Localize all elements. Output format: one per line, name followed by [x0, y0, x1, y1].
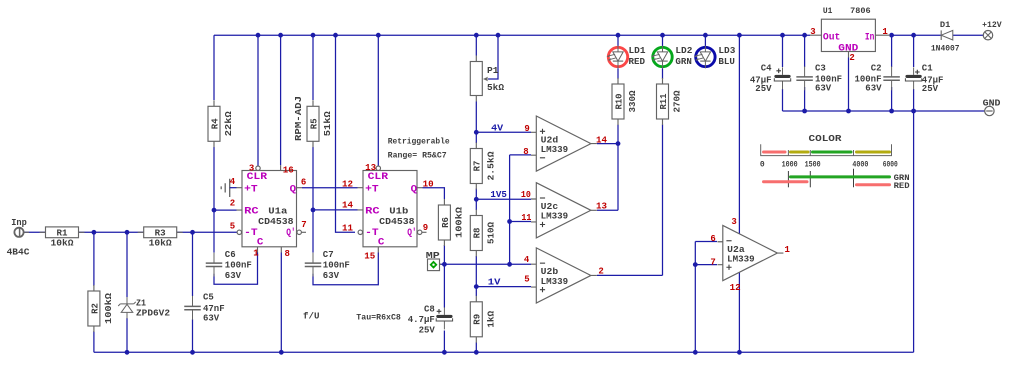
wire +6V top rail — [214, 34, 810, 36]
wire U2d pin 8 — [510, 154, 531, 156]
svg-text:C8: C8 — [424, 305, 435, 315]
svg-text:Tau=R6xC8: Tau=R6xC8 — [356, 314, 401, 323]
svg-text:10kΩ: 10kΩ — [149, 239, 173, 249]
junction 1V node — [474, 284, 479, 289]
junction 4V node — [474, 130, 479, 135]
svg-text:11: 11 — [342, 223, 354, 233]
wire C1 bottom — [913, 89, 915, 111]
svg-text:CD4538: CD4538 — [379, 217, 414, 227]
wire LD1 anode — [617, 35, 619, 46]
svg-text:U2d: U2d — [541, 135, 559, 145]
svg-text:1: 1 — [785, 245, 791, 255]
svg-text:LM339: LM339 — [541, 145, 569, 155]
capacitor C3 — [795, 64, 842, 94]
pin numbers U1a — [230, 163, 307, 259]
wire C4 top — [782, 35, 784, 67]
svg-text:8: 8 — [523, 147, 528, 157]
svg-text:100nF: 100nF — [225, 261, 252, 271]
svg-text:5: 5 — [230, 221, 235, 231]
svg-text:3: 3 — [249, 163, 254, 173]
pin names U1a — [244, 172, 296, 249]
svg-text:Retriggerable: Retriggerable — [388, 138, 450, 147]
LED LD1 — [607, 46, 647, 69]
wire R4 top drop — [213, 35, 215, 100]
svg-text:4.7µF: 4.7µF — [408, 315, 435, 325]
legend bar green 1500-4000 — [813, 151, 852, 154]
svg-text:R8: R8 — [473, 228, 483, 239]
svg-text:U2a: U2a — [727, 245, 745, 255]
wire C3 top — [804, 35, 806, 67]
junction ground rail / U2a inputs — [693, 350, 698, 355]
svg-text:1500: 1500 — [805, 161, 821, 170]
junction mini rail / C3 — [802, 109, 807, 114]
svg-text:GND: GND — [838, 43, 858, 54]
wire R5 bottom to C7 / RC node — [312, 147, 314, 253]
capacitor C8 — [408, 305, 454, 336]
junction mini rail / C1 and riser — [911, 109, 916, 114]
wire R2 bottom to ground rail — [93, 331, 95, 352]
wire C3 bottom — [804, 87, 806, 111]
wire R2 top drop — [93, 232, 95, 286]
svg-text:1V5: 1V5 — [490, 190, 507, 200]
svg-text:6: 6 — [301, 178, 306, 188]
svg-text:C4: C4 — [761, 64, 772, 74]
junction U2a pins 6-7 — [693, 262, 698, 267]
svg-text:RED: RED — [629, 57, 646, 67]
svg-text:3: 3 — [731, 217, 736, 227]
junction ground rail / U1a pin 8 — [279, 350, 284, 355]
legend bar red 0-1000 — [764, 151, 786, 154]
svg-text:RC: RC — [365, 206, 380, 217]
svg-text:-T: -T — [244, 228, 258, 239]
wire +12V input line — [890, 34, 983, 36]
wire comparator inverting input chain pins 8-11-4 — [509, 155, 511, 264]
svg-text:In: In — [865, 32, 875, 43]
wire R9 bottom to ground rail — [475, 343, 477, 353]
svg-text:13: 13 — [596, 201, 607, 211]
svg-text:1: 1 — [882, 27, 888, 37]
monostable U1a CD4538 — [237, 165, 307, 252]
junction top rail / U2a pin 3 — [737, 33, 742, 38]
wire MP node to U2b pin 4 — [440, 263, 531, 265]
svg-text:8: 8 — [285, 249, 290, 259]
capacitor C4 — [750, 64, 792, 94]
wire U2d output 14 to R10 line — [597, 143, 618, 145]
node 1V wire to U2b pin 5 — [476, 286, 531, 288]
junction input net / Z1 — [125, 230, 130, 235]
svg-text:510Ω: 510Ω — [486, 221, 496, 244]
svg-text:P1: P1 — [487, 66, 499, 76]
wire RC node to U1b pin 14 — [313, 209, 358, 211]
svg-text:2.5kΩ: 2.5kΩ — [486, 151, 496, 181]
svg-text:330Ω: 330Ω — [628, 90, 638, 113]
svg-text:R4: R4 — [210, 118, 220, 129]
label U1a CD4538 — [258, 207, 293, 227]
pin numbers U2d — [523, 124, 607, 157]
resistor R3 — [138, 227, 183, 249]
capacitor C5 — [183, 293, 224, 324]
resistor R11 — [657, 78, 683, 125]
legend ruler bracket — [761, 144, 892, 155]
junction top rail / LD2 — [660, 33, 665, 38]
svg-text:2: 2 — [849, 53, 854, 63]
junction 1V5 node — [474, 197, 479, 202]
resistor R7 — [470, 143, 496, 190]
legend bar yellow 4000-6000 — [857, 151, 890, 154]
wire C2 bottom — [891, 87, 893, 111]
svg-text:LM339: LM339 — [541, 277, 569, 287]
LED LD3 — [694, 46, 735, 69]
svg-text:C6: C6 — [225, 250, 236, 260]
svg-text:LD2: LD2 — [675, 46, 692, 56]
wire U2a power pin 12 to ground rail — [738, 273, 740, 353]
wire LD3 anode — [704, 35, 706, 46]
svg-text:U1: U1 — [823, 6, 833, 16]
pin numbers U1b — [342, 163, 434, 261]
svg-text:7: 7 — [301, 220, 306, 230]
junction RC node U1a — [212, 208, 217, 213]
wire C2 top — [891, 35, 893, 67]
LED LD2 — [651, 46, 692, 69]
svg-text:1: 1 — [253, 249, 259, 259]
op-amp U2c — [531, 183, 597, 238]
junction top rail / R5 — [311, 33, 316, 38]
junction top rail / U1a pin 16 — [278, 33, 283, 38]
wire U1b Q pin 10 to R6 — [423, 188, 445, 199]
svg-text:100kΩ: 100kΩ — [454, 206, 464, 238]
resistor R10 — [612, 78, 638, 125]
svg-text:Range= R5&C7: Range= R5&C7 — [388, 151, 447, 160]
diode D1 1N4007 — [931, 20, 960, 53]
op-amp U2b — [531, 248, 597, 303]
svg-text:R2: R2 — [90, 303, 100, 314]
svg-text:63V: 63V — [815, 83, 832, 93]
svg-text:-T: -T — [365, 228, 379, 239]
svg-text:4: 4 — [230, 177, 236, 187]
terminal GND — [983, 98, 1001, 115]
svg-text:2: 2 — [598, 266, 603, 276]
wire U2a pin 7 — [695, 264, 717, 266]
junction input net / C5 — [190, 230, 195, 235]
label Retriggerable annotation — [388, 138, 450, 161]
svg-text:Out: Out — [823, 32, 841, 43]
wire RC node to U1a pin 2 — [214, 209, 237, 211]
resistor R8 — [470, 210, 496, 257]
junction MP line / comparator input chain — [507, 262, 512, 267]
op-amp U2d — [531, 116, 597, 171]
junction top rail / P1 wiper — [496, 33, 501, 38]
svg-text:4: 4 — [524, 255, 530, 265]
wire R7 bottom to 1V5 node to R8 — [475, 189, 477, 211]
junction ground rail / Z1 — [125, 350, 130, 355]
svg-text:C1: C1 — [922, 64, 933, 74]
terminal +12V — [982, 21, 1002, 40]
node 4V wire to U2d pin 9 — [476, 131, 531, 133]
svg-text:16: 16 — [283, 165, 294, 175]
legend tick 1000 — [787, 171, 789, 187]
svg-text:U2b: U2b — [541, 267, 559, 277]
wire R10 bottom to U2c output line — [617, 125, 619, 211]
svg-text:Inp: Inp — [11, 218, 27, 228]
junction chain / U2c pin 11 — [507, 219, 512, 224]
wire P1 bottom to 4V node — [475, 102, 477, 144]
junction top rail / C3 — [802, 33, 807, 38]
resistor R9 — [470, 296, 496, 343]
junction top rail / U1b pin 13 — [376, 33, 381, 38]
svg-text:0: 0 — [760, 161, 765, 170]
label U1 7806 — [823, 6, 871, 16]
svg-text:13: 13 — [365, 163, 376, 173]
junction top rail / C4 — [780, 33, 785, 38]
junction MP node — [442, 262, 447, 267]
capacitor C7 — [304, 250, 350, 281]
svg-text:47nF: 47nF — [203, 304, 225, 314]
wire C5 top drop — [192, 232, 194, 296]
svg-text:+T: +T — [244, 184, 258, 195]
svg-text:LM339: LM339 — [727, 254, 755, 264]
svg-text:14: 14 — [342, 200, 354, 210]
wire LD2 anode — [662, 35, 664, 46]
wire U2a inputs tie-down — [694, 242, 696, 353]
svg-text:U1b: U1b — [389, 207, 408, 217]
capacitor C2 — [854, 64, 900, 94]
svg-text:51kΩ: 51kΩ — [323, 111, 333, 137]
svg-text:9: 9 — [423, 223, 428, 233]
wire U1a Q pin 6 to U1b +T pin 12 — [302, 187, 358, 189]
wire U2c output 13 — [597, 209, 618, 211]
svg-text:RED: RED — [894, 182, 910, 191]
svg-text:CLR: CLR — [247, 172, 268, 183]
junction RC node U1b — [311, 208, 316, 213]
junction mini rail / C2 — [889, 109, 894, 114]
junction ground rail / R9 — [474, 350, 479, 355]
wire R11 bottom to U2b output — [662, 125, 664, 276]
wire GND mini rail power section — [783, 110, 985, 112]
svg-text:CD4538: CD4538 — [258, 217, 293, 227]
svg-text:11: 11 — [521, 213, 532, 223]
junction ground rail / C5 — [190, 350, 195, 355]
svg-text:ZPD6V2: ZPD6V2 — [136, 309, 170, 319]
wire ground riser right — [913, 111, 915, 352]
svg-text:3: 3 — [810, 27, 815, 37]
voltage regulator U1 7806 — [810, 19, 890, 57]
svg-text:2: 2 — [230, 199, 235, 209]
svg-text:4V: 4V — [491, 124, 504, 134]
svg-text:270Ω: 270Ω — [673, 90, 683, 113]
svg-text:100kΩ: 100kΩ — [104, 292, 114, 324]
svg-text:100nF: 100nF — [323, 261, 350, 271]
svg-text:COLOR: COLOR — [809, 134, 843, 144]
svg-text:CLR: CLR — [368, 172, 389, 183]
pin numbers U2a — [710, 217, 790, 293]
svg-text:C3: C3 — [815, 64, 826, 74]
svg-text:7806: 7806 — [850, 6, 871, 16]
label U1b CD4538 — [379, 207, 414, 227]
svg-text:63V: 63V — [203, 314, 220, 324]
svg-text:12: 12 — [730, 283, 741, 293]
test point MP — [428, 259, 442, 271]
svg-text:GND: GND — [983, 98, 1001, 108]
resistor R5 — [307, 100, 333, 147]
svg-text:12: 12 — [342, 179, 353, 189]
junction ground rail / C8 — [442, 350, 447, 355]
svg-text:R5: R5 — [309, 118, 319, 129]
wire U2c pin 11 — [510, 221, 531, 223]
svg-text:BLU: BLU — [718, 57, 735, 67]
legend tick 1500 — [809, 171, 811, 187]
node 1V5 wire to U2c pin 10 — [476, 198, 531, 200]
wire U1b CLR pin 13 drop — [377, 35, 379, 166]
svg-text:R9: R9 — [473, 314, 483, 325]
pin numbers U2c — [521, 190, 607, 223]
svg-text:5: 5 — [524, 275, 529, 285]
svg-text:U1a: U1a — [268, 207, 288, 217]
svg-text:D1: D1 — [940, 20, 951, 30]
svg-text:LD1: LD1 — [629, 46, 647, 56]
svg-text:22kΩ: 22kΩ — [224, 111, 234, 137]
legend GRN range bar — [791, 175, 890, 178]
wire LD1 cathode to R10 — [617, 68, 619, 79]
svg-text:R1: R1 — [57, 229, 69, 239]
wire input net Inp to U1a -T — [24, 231, 237, 233]
legend tick 4000 — [853, 169, 855, 188]
svg-text:63V: 63V — [225, 271, 242, 281]
zener diode Z1 — [118, 297, 170, 319]
wire P1 top drop — [475, 35, 477, 55]
svg-text:Q': Q' — [286, 227, 296, 239]
resistor R2 — [88, 285, 114, 332]
svg-text:C5: C5 — [203, 293, 214, 303]
svg-text:C7: C7 — [323, 250, 334, 260]
junction top rail / LD1 — [616, 33, 621, 38]
wire U1a pin 8 to ground rail — [280, 253, 282, 353]
wire Z1 bottom to ground rail — [126, 318, 128, 352]
svg-text:1V: 1V — [488, 278, 501, 288]
svg-text:5kΩ: 5kΩ — [487, 83, 505, 93]
svg-text:R7: R7 — [473, 161, 483, 172]
wire R6 bottom to MP node and C8 — [443, 245, 445, 308]
svg-text:4B4C: 4B4C — [7, 247, 30, 257]
svg-text:15: 15 — [364, 252, 375, 262]
wire P1 wiper — [488, 35, 498, 79]
junction top rail / LD3 — [703, 33, 708, 38]
wire U2a power pin 3 — [738, 35, 740, 233]
svg-text:14: 14 — [596, 135, 608, 145]
wire U1a CLR pin 3 drop — [257, 35, 259, 166]
svg-text:R6: R6 — [441, 217, 451, 228]
legend bar yellow 1000-1500 — [791, 151, 809, 154]
svg-text:U2c: U2c — [541, 202, 559, 212]
pin numbers U2b — [524, 255, 604, 285]
svg-text:Z1: Z1 — [136, 298, 147, 308]
svg-text:6000: 6000 — [883, 161, 898, 170]
resistor R6 — [438, 199, 464, 246]
wire U2a pin 6 — [695, 241, 717, 243]
svg-text:C2: C2 — [871, 64, 882, 74]
svg-text:+12V: +12V — [982, 21, 1002, 30]
svg-text:RPM-ADJ: RPM-ADJ — [294, 96, 304, 141]
wire Z1 top drop — [126, 232, 128, 297]
svg-text:1kΩ: 1kΩ — [486, 310, 496, 328]
pin numbers U1 7806 — [810, 27, 888, 63]
wire C5 bottom to ground rail — [192, 319, 194, 352]
wire R8 bottom to 1V node to R9 — [475, 256, 477, 296]
svg-text:f/U: f/U — [303, 311, 320, 321]
legend RED low range bar — [764, 180, 808, 183]
svg-text:25V: 25V — [922, 84, 939, 94]
svg-text:25V: 25V — [419, 326, 436, 336]
svg-text:10: 10 — [423, 179, 434, 189]
svg-text:10: 10 — [521, 190, 531, 200]
wire C7 bottom to U1b pin 15 — [313, 253, 378, 285]
wire U1 GND pin 2 — [848, 58, 850, 112]
wire C4 bottom — [782, 89, 784, 111]
junction mini rail / U1 pin 2 — [846, 109, 851, 114]
wire C8 bottom to ground rail — [443, 331, 445, 353]
svg-text:Q: Q — [290, 184, 297, 195]
svg-text:R11: R11 — [659, 93, 669, 110]
wire R5 top drop — [312, 35, 314, 100]
junction +12V line / C2 — [889, 33, 894, 38]
svg-text:6: 6 — [710, 234, 715, 244]
svg-text:1000: 1000 — [782, 161, 798, 170]
pin names U1b — [365, 172, 417, 249]
wire C1 top — [913, 35, 915, 67]
svg-text:MP: MP — [426, 251, 441, 261]
junction top rail / U1a pin 3 — [256, 33, 261, 38]
svg-text:7: 7 — [710, 257, 715, 267]
svg-text:R3: R3 — [155, 229, 166, 239]
svg-text:Q': Q' — [407, 227, 417, 239]
wire U1a pin 16 drop — [280, 35, 282, 165]
wire LD2 cathode to R11 — [662, 68, 664, 79]
junction ground rail / U2a pin 12 — [737, 350, 742, 355]
capacitor C1 — [905, 64, 944, 94]
monostable U1b CD4538 — [358, 166, 427, 253]
svg-text:10kΩ: 10kΩ — [51, 239, 75, 249]
svg-text:C: C — [378, 237, 385, 248]
wire to U1b -T pin 11 — [336, 35, 356, 232]
svg-text:Q: Q — [411, 184, 418, 195]
junction outputs 14-13 wired-or — [616, 141, 621, 146]
wire C6 bottom to U1a pin 1 — [214, 253, 258, 285]
junction top rail / U1b pin 11 branch — [333, 33, 338, 38]
svg-text:63V: 63V — [323, 271, 340, 281]
svg-text:25V: 25V — [755, 84, 772, 94]
svg-text:1N4007: 1N4007 — [931, 44, 960, 53]
connector Inp input pad — [14, 228, 29, 237]
trimmer potentiometer P1 — [470, 56, 504, 102]
legend scale numbers — [760, 161, 898, 170]
wire ground bottom rail — [94, 351, 914, 353]
svg-text:4000: 4000 — [852, 161, 868, 170]
svg-text:R10: R10 — [614, 94, 624, 110]
wire U2b output 2 to R11 — [597, 274, 663, 276]
legend RED high range bar — [857, 183, 890, 186]
svg-text:63V: 63V — [865, 83, 882, 93]
resistor R4 — [208, 100, 234, 147]
wire R4 bottom to C6 / RC node — [213, 147, 215, 253]
svg-text:LM339: LM339 — [541, 212, 569, 222]
svg-text:+T: +T — [365, 184, 379, 195]
junction top rail / P1 — [474, 33, 479, 38]
svg-text:9: 9 — [524, 124, 529, 134]
junction input net / R2 — [92, 230, 97, 235]
ground symbol at U1a pin 4 — [221, 179, 230, 197]
svg-text:C: C — [257, 237, 264, 248]
op-amp U2a — [718, 225, 784, 280]
junction +12V line / C1 — [911, 33, 916, 38]
